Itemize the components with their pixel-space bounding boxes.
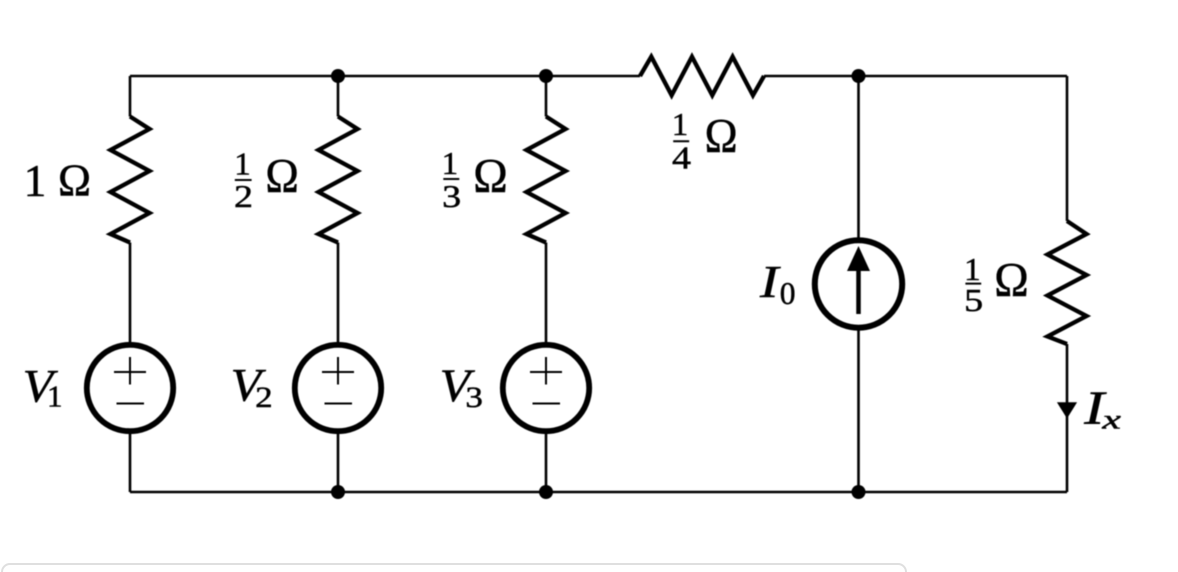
label 1/2 ohm fraction: [234, 146, 299, 214]
resistor R1 (1 ohm): [111, 117, 150, 243]
wire branch1 middle: [129, 243, 132, 346]
wire branch3 middle: [545, 243, 548, 346]
node bottom-3: [539, 485, 553, 499]
answer input box (bottom, cut off): [1, 563, 907, 572]
svg-text:Ω: Ω: [994, 254, 1029, 307]
wire current-source bottom: [857, 328, 860, 492]
svg-text:1: 1: [234, 146, 251, 181]
wire current-source top: [857, 76, 860, 241]
svg-text:Ω: Ω: [705, 110, 738, 163]
svg-text:5: 5: [964, 283, 983, 318]
svg-text:2: 2: [255, 382, 273, 414]
label V2: [231, 361, 273, 415]
V1 minus sign: [117, 403, 145, 405]
voltage source V2 circle: [295, 345, 381, 431]
resistor R4 (1/4 ohm, horizontal): [640, 57, 764, 96]
svg-text:1: 1: [964, 252, 981, 287]
svg-text:Ω: Ω: [473, 150, 508, 203]
I0 arrowhead: [847, 246, 870, 271]
svg-text:4: 4: [672, 141, 691, 176]
wire branch2 bottom: [337, 431, 340, 493]
V2 plus sign: [322, 357, 354, 385]
node top-2: [331, 69, 345, 83]
label 1/4 ohm fraction: [672, 107, 738, 175]
svg-text:1: 1: [47, 379, 63, 414]
resistor R5 (1/5 ohm, vertical right): [1048, 221, 1087, 344]
label V3: [440, 361, 483, 414]
V3 plus sign: [530, 357, 562, 385]
svg-text:Ω: Ω: [58, 154, 91, 205]
wire branch2 middle: [337, 243, 340, 346]
resistor R2 (1/2 ohm): [319, 117, 358, 243]
V1 plus sign: [114, 357, 146, 385]
voltage source V1 circle: [87, 345, 173, 431]
wire bottom: [130, 491, 1067, 494]
svg-text:Ω: Ω: [265, 150, 299, 203]
I0 arrow shaft: [856, 268, 861, 314]
node bottom-2: [331, 485, 345, 499]
wire branch1 top: [129, 76, 132, 117]
svg-text:2: 2: [234, 179, 253, 214]
svg-text:1: 1: [672, 107, 689, 142]
label 1/5 ohm fraction: [964, 252, 1029, 318]
node top-I0: [852, 69, 866, 83]
label 1 ohm: [24, 154, 91, 205]
label I0: [759, 256, 796, 311]
label 1/3 ohm fraction: [442, 146, 508, 214]
svg-text:1: 1: [24, 156, 47, 206]
svg-text:0: 0: [780, 276, 796, 311]
wire branch3 top: [545, 76, 548, 117]
wire right-bottom vertical: [1066, 344, 1069, 492]
wire top-left segment: [130, 75, 640, 78]
svg-text:3: 3: [465, 382, 483, 414]
svg-text:1: 1: [442, 146, 459, 181]
voltage source V3 circle: [503, 345, 589, 431]
wire top-right segment: [764, 75, 1067, 78]
label Ix: [1083, 383, 1121, 435]
wire right-top vertical: [1066, 76, 1069, 221]
resistor R3 (1/3 ohm): [527, 117, 566, 243]
wire branch1 bottom: [129, 431, 132, 493]
svg-text:I: I: [759, 256, 782, 307]
svg-text:x: x: [1101, 405, 1121, 435]
node top-3: [539, 69, 553, 83]
label V1: [23, 361, 63, 413]
V3 minus sign: [533, 403, 561, 405]
node bottom-I0: [852, 485, 866, 499]
arrowhead current Ix: [1057, 402, 1077, 418]
current source I0 circle: [815, 240, 902, 327]
wire branch3 bottom: [545, 431, 548, 493]
svg-text:3: 3: [442, 179, 461, 214]
wire branch2 top: [337, 76, 340, 117]
V2 minus sign: [325, 403, 353, 405]
